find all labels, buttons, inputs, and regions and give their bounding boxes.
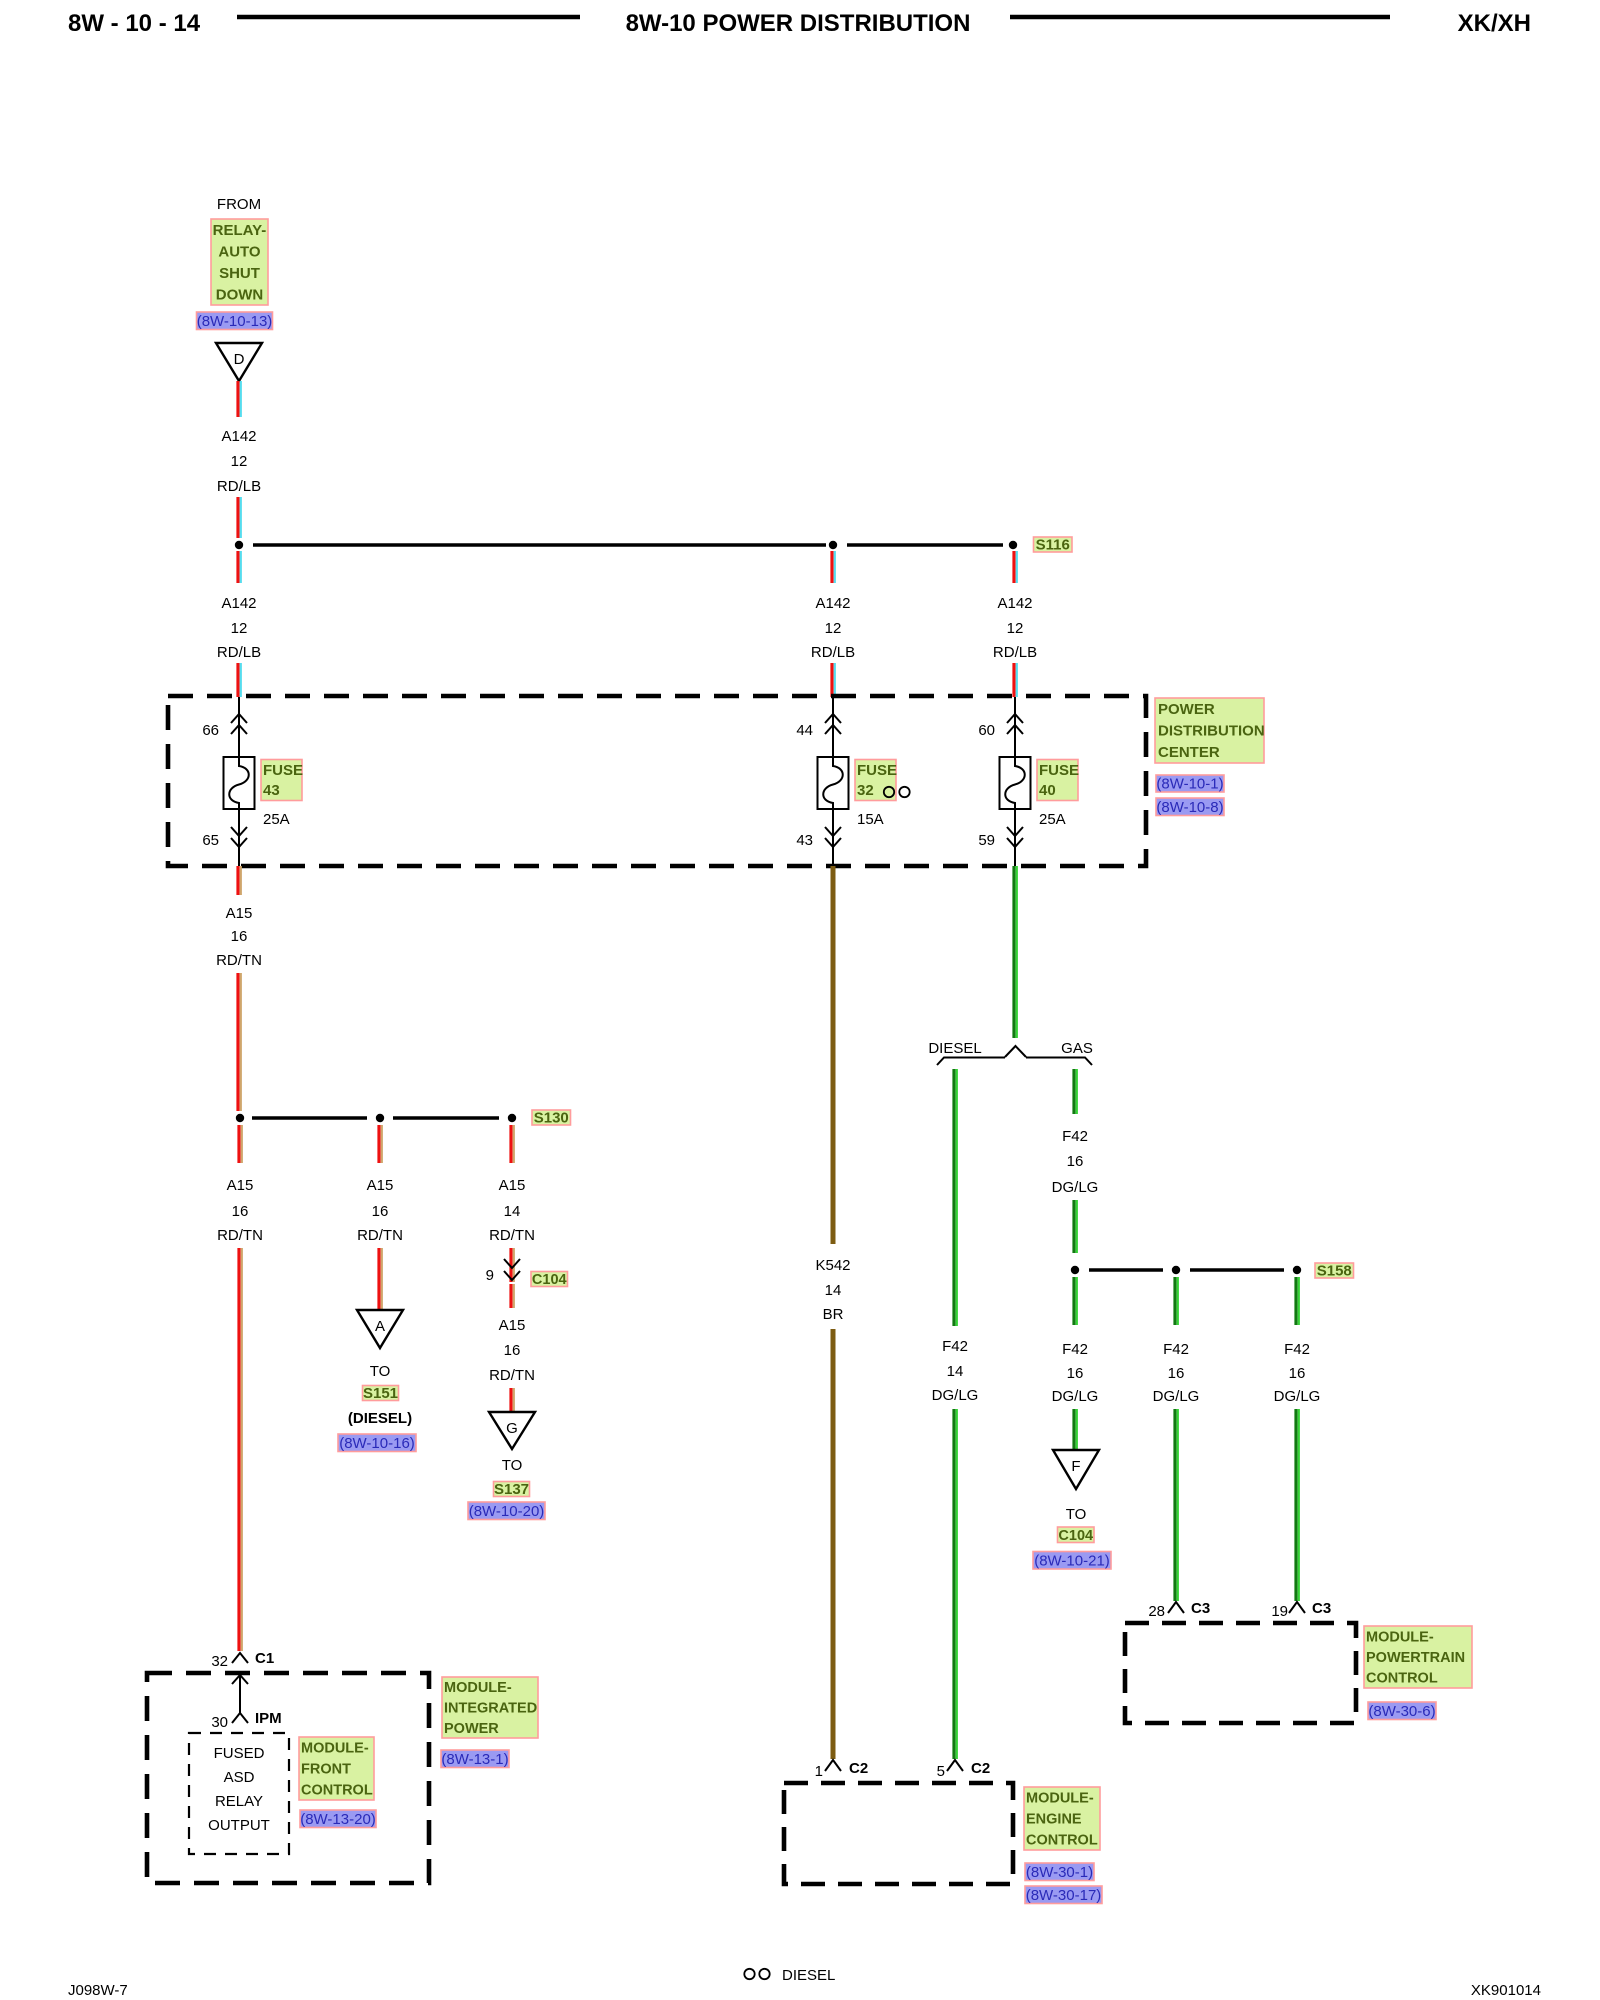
svg-text:FUSE: FUSE: [263, 762, 303, 779]
off-page connector D: [216, 343, 262, 381]
svg-text:16: 16: [1067, 1365, 1084, 1382]
svg-text:12: 12: [825, 620, 842, 637]
svg-text:16: 16: [1289, 1365, 1306, 1382]
svg-text:16: 16: [1067, 1153, 1084, 1170]
wire label A142 12 RD/LB at x=1015: [993, 595, 1037, 661]
svg-text:(8W-13-1): (8W-13-1): [441, 1751, 508, 1768]
pin 30 IPM chevron: [232, 1713, 248, 1723]
svg-text:F42: F42: [1062, 1341, 1088, 1358]
svg-text:14: 14: [947, 1363, 964, 1380]
svg-text:GAS: GAS: [1061, 1040, 1093, 1057]
svg-text:J098W-7: J098W-7: [68, 1982, 128, 1999]
svg-text:16: 16: [372, 1203, 389, 1220]
svg-text:16: 16: [1168, 1365, 1185, 1382]
svg-text:DG/LG: DG/LG: [1052, 1179, 1099, 1196]
page ref 8W-13-1: [441, 1750, 509, 1768]
svg-text:C104: C104: [1058, 1528, 1093, 1544]
svg-text:FUSED: FUSED: [214, 1745, 265, 1762]
wire label A15 16 RD/TN: [489, 1317, 535, 1384]
page ref 8W-10-16: [338, 1434, 416, 1452]
svg-text:12: 12: [231, 620, 248, 637]
svg-text:43: 43: [796, 832, 813, 849]
wire F42 to PCM pin 28: [1175, 1409, 1178, 1601]
svg-text:A142: A142: [221, 595, 256, 612]
wire label A142 12 RD/LB at x=239: [217, 595, 261, 661]
wire to F: [1074, 1409, 1077, 1449]
svg-text:15A: 15A: [857, 811, 884, 828]
svg-text:A: A: [375, 1318, 385, 1335]
fuse FUSE 40 feed line: [1014, 697, 1016, 757]
connector C104 chevrons: [504, 1259, 520, 1280]
wire A142 to splice S116: [238, 497, 241, 538]
svg-text:16: 16: [232, 1203, 249, 1220]
svg-text:44: 44: [796, 722, 813, 739]
splice S130 node left: [236, 1114, 244, 1122]
wire A142 12 RD/LB drop at x=1015: [1014, 551, 1017, 583]
svg-text:DIESEL: DIESEL: [782, 1967, 835, 1984]
svg-text:RD/TN: RD/TN: [489, 1227, 535, 1244]
svg-text:TO: TO: [502, 1457, 523, 1474]
fuse label FUSE 43: [261, 760, 303, 801]
svg-text:(8W-30-17): (8W-30-17): [1026, 1887, 1102, 1904]
svg-text:AUTO: AUTO: [218, 244, 261, 261]
svg-text:RD/LB: RD/LB: [217, 644, 261, 661]
wire label F42 16 DG/LG at x=1297: [1274, 1341, 1321, 1405]
svg-text:C2: C2: [849, 1760, 868, 1777]
wire A15 16 RD/TN below C104: [511, 1284, 514, 1308]
fuse FUSE 43 body: [224, 757, 255, 809]
svg-text:ASD: ASD: [224, 1769, 255, 1786]
svg-text:A15: A15: [227, 1177, 254, 1194]
wire K542 14 BR below fuse 32: [831, 866, 836, 1244]
svg-text:MODULE-: MODULE-: [1366, 1629, 1434, 1645]
wire label F42 14 DG/LG: [932, 1338, 979, 1404]
fuse FUSE 40 output line: [1014, 809, 1016, 866]
svg-text:RD/LB: RD/LB: [811, 644, 855, 661]
module-engine control box: [784, 1783, 1013, 1884]
svg-text:C2: C2: [971, 1760, 990, 1777]
splice S158 node middle: [1172, 1266, 1180, 1274]
svg-text:DG/LG: DG/LG: [1153, 1388, 1200, 1405]
connector C2 pin 5 chevron: [947, 1760, 963, 1771]
header rule right: [1010, 15, 1390, 20]
svg-text:D: D: [234, 351, 245, 368]
wire F42 to ECM C2 pin 5: [954, 1409, 957, 1759]
pin 65 connector chevrons: [231, 827, 247, 847]
svg-text:XK/XH: XK/XH: [1458, 10, 1531, 37]
svg-text:(8W-10-1): (8W-10-1): [1156, 775, 1223, 792]
wire F42 16 DG/LG below S158 at x=1297: [1296, 1277, 1299, 1325]
svg-text:30: 30: [211, 1714, 228, 1731]
svg-text:C3: C3: [1191, 1600, 1210, 1617]
svg-text:S130: S130: [534, 1110, 569, 1127]
svg-text:RD/LB: RD/LB: [993, 644, 1037, 661]
svg-text:S151: S151: [363, 1385, 398, 1402]
page ref 8W-10-1: [1156, 775, 1224, 792]
wire label A142 12 RD/LB: [217, 428, 261, 495]
svg-text:CONTROL: CONTROL: [1026, 1833, 1098, 1849]
pin 60 connector chevrons: [1007, 714, 1023, 734]
svg-text:TO: TO: [370, 1363, 391, 1380]
svg-text:DIESEL: DIESEL: [928, 1040, 981, 1057]
svg-text:RD/TN: RD/TN: [216, 952, 262, 969]
svg-text:A15: A15: [226, 905, 253, 922]
svg-text:CONTROL: CONTROL: [1366, 1671, 1438, 1687]
pin 44 connector chevrons: [825, 714, 841, 734]
svg-text:FRONT: FRONT: [301, 1762, 351, 1778]
svg-text:RD/TN: RD/TN: [217, 1227, 263, 1244]
off-page connector A: [357, 1310, 403, 1348]
svg-text:FROM: FROM: [217, 196, 261, 213]
wire label A15 16 RD/TN: [217, 1177, 263, 1244]
svg-text:MODULE-: MODULE-: [1026, 1791, 1094, 1807]
svg-text:25A: 25A: [263, 811, 290, 828]
svg-text:OUTPUT: OUTPUT: [208, 1817, 270, 1834]
fused ASD relay output inner box: [189, 1733, 289, 1854]
svg-text:RD/LB: RD/LB: [217, 478, 261, 495]
svg-text:CONTROL: CONTROL: [301, 1783, 373, 1799]
relay-auto-shut-down source label: [211, 219, 268, 305]
wire label A142 12 RD/LB at x=833: [811, 595, 855, 661]
wire splice bus segment 1: [253, 543, 826, 546]
wire F42 DG/LG below fuse 40: [1014, 866, 1017, 1038]
connector C1 pin 32 chevron: [232, 1653, 248, 1663]
svg-text:MODULE-: MODULE-: [444, 1680, 512, 1696]
svg-text:FUSE: FUSE: [1039, 762, 1079, 779]
diesel marker circles: [884, 787, 910, 797]
connector label C104: [1058, 1527, 1095, 1544]
svg-text:25A: 25A: [1039, 811, 1066, 828]
diesel/gas split bracket: [937, 1046, 1092, 1065]
svg-text:16: 16: [504, 1342, 521, 1359]
svg-text:8W-10 POWER DISTRIBUTION: 8W-10 POWER DISTRIBUTION: [626, 10, 971, 37]
svg-text:32: 32: [857, 782, 874, 799]
internal arrow from fused ASD relay output: [232, 1675, 248, 1713]
wire to G: [511, 1388, 514, 1411]
module-front control label: [299, 1737, 374, 1800]
svg-text:F42: F42: [1062, 1128, 1088, 1145]
wire A15 to splice S130: [238, 973, 241, 1111]
off-page connector F: [1053, 1450, 1099, 1489]
connector label C104: [531, 1272, 568, 1289]
svg-text:14: 14: [504, 1203, 521, 1220]
module-powertrain control label: [1364, 1626, 1472, 1688]
svg-text:(DIESEL): (DIESEL): [348, 1410, 412, 1427]
wire A15 below S130 at x=240: [239, 1125, 242, 1163]
splice label S130: [532, 1110, 571, 1127]
svg-text:65: 65: [202, 832, 219, 849]
wire K542 to ECM C2: [831, 1329, 836, 1759]
svg-text:(8W-10-8): (8W-10-8): [1156, 799, 1223, 816]
wire label F42 16 DG/LG at x=1176: [1153, 1341, 1200, 1405]
page ref 8W-10-13: [197, 312, 273, 330]
wire label A15 14 RD/TN: [489, 1177, 535, 1244]
splice S130 node middle: [376, 1114, 384, 1122]
wire splice bus segment 2: [847, 543, 1003, 546]
splice S130 node right: [508, 1114, 516, 1122]
svg-text:RELAY-: RELAY-: [213, 222, 267, 239]
wire label A15 16 RD/TN: [216, 905, 262, 969]
svg-text:POWER: POWER: [1158, 701, 1215, 718]
power distribution center box: [168, 696, 1146, 866]
splice S130 bus segment 2: [393, 1116, 499, 1119]
splice S130 bus segment 1: [252, 1116, 367, 1119]
wire A15 16 RD/TN below fuse 43: [238, 866, 241, 895]
fuse label FUSE 32: [855, 760, 897, 801]
splice S116 node middle: [829, 541, 837, 549]
fuse FUSE 32 body: [818, 757, 849, 809]
fuse FUSE 40 body: [1000, 757, 1031, 809]
svg-text:CENTER: CENTER: [1158, 744, 1220, 761]
wire A15 14 RD/TN to C104: [511, 1248, 514, 1282]
svg-text:IPM: IPM: [255, 1710, 282, 1727]
page ref 8W-10-21: [1033, 1552, 1111, 1570]
splice label S158: [1315, 1263, 1354, 1280]
wire F42 16 DG/LG below S158 at x=1075: [1074, 1277, 1077, 1325]
svg-text:F: F: [1071, 1458, 1080, 1475]
svg-text:SHUT: SHUT: [219, 265, 260, 282]
svg-text:DG/LG: DG/LG: [1274, 1388, 1321, 1405]
svg-text:F42: F42: [1284, 1341, 1310, 1358]
splice S116 node right: [1009, 541, 1017, 549]
wire F42 to splice S158: [1074, 1200, 1077, 1253]
page ref 8W-13-20: [300, 1810, 376, 1828]
svg-text:28: 28: [1148, 1603, 1165, 1620]
svg-text:F42: F42: [1163, 1341, 1189, 1358]
svg-text:MODULE-: MODULE-: [301, 1741, 369, 1757]
splice label S151: [363, 1385, 399, 1402]
module-integrated power box: [147, 1673, 429, 1883]
splice S158 bus segment 2: [1190, 1268, 1284, 1271]
svg-text:DOWN: DOWN: [216, 287, 264, 304]
svg-text:1: 1: [815, 1763, 823, 1780]
wire F42 14 DG/LG diesel branch: [954, 1069, 957, 1326]
svg-text:A142: A142: [815, 595, 850, 612]
wire F42 16 DG/LG gas branch: [1074, 1069, 1077, 1114]
wire A142 12 RD/LB drop at x=833: [832, 551, 835, 583]
wire A15 16 RD/TN to A: [379, 1248, 382, 1309]
module-powertrain control box: [1125, 1623, 1356, 1723]
wire A15 below S130 at x=512: [511, 1125, 514, 1163]
svg-text:K542: K542: [815, 1257, 850, 1274]
svg-text:POWER: POWER: [444, 1721, 499, 1737]
page ref 8W-10-20: [468, 1502, 545, 1520]
svg-text:RD/TN: RD/TN: [489, 1367, 535, 1384]
module-integrated power label: [442, 1677, 538, 1738]
page ref 8W-10-8: [1156, 798, 1224, 816]
pin 43 connector chevrons: [825, 827, 841, 847]
wire label K542 14 BR: [815, 1257, 850, 1323]
svg-text:A142: A142: [997, 595, 1032, 612]
svg-text:40: 40: [1039, 782, 1056, 799]
svg-text:INTEGRATED: INTEGRATED: [444, 1701, 537, 1717]
wire A142 12 RD/LB drop at x=239: [238, 551, 241, 583]
wire label A15 16 RD/TN: [357, 1177, 403, 1244]
svg-text:9: 9: [486, 1267, 494, 1284]
svg-text:A142: A142: [221, 428, 256, 445]
svg-text:12: 12: [1007, 620, 1024, 637]
connector C2 pin 1 chevron: [825, 1760, 841, 1771]
pin 66 connector chevrons: [231, 714, 247, 734]
svg-text:43: 43: [263, 782, 280, 799]
connector C3 pin 19 chevron: [1289, 1602, 1305, 1613]
svg-text:FUSE: FUSE: [857, 762, 897, 779]
svg-text:C104: C104: [532, 1272, 567, 1288]
module-engine control label: [1024, 1787, 1100, 1850]
svg-text:14: 14: [825, 1282, 842, 1299]
svg-text:12: 12: [231, 453, 248, 470]
svg-text:C3: C3: [1312, 1600, 1331, 1617]
svg-text:POWERTRAIN: POWERTRAIN: [1366, 1650, 1465, 1666]
splice S158 node right: [1293, 1266, 1301, 1274]
splice label S116: [1034, 537, 1073, 554]
page ref 8W-30-1: [1025, 1863, 1094, 1881]
svg-text:BR: BR: [823, 1306, 844, 1323]
svg-text:(8W-10-13): (8W-10-13): [197, 313, 273, 330]
fuse FUSE 32 output line: [832, 809, 834, 866]
fuse FUSE 32 feed line: [832, 697, 834, 757]
svg-text:(8W-30-1): (8W-30-1): [1026, 1864, 1093, 1881]
pin 59 connector chevrons: [1007, 827, 1023, 847]
svg-text:5: 5: [937, 1763, 945, 1780]
splice S116 node left: [235, 541, 243, 549]
wire A15 below S130 at x=380: [379, 1125, 382, 1163]
svg-text:A15: A15: [499, 1177, 526, 1194]
fuse label FUSE 40: [1037, 760, 1079, 801]
connector C3 pin 28 chevron: [1168, 1602, 1184, 1613]
power distribution center label: [1155, 698, 1265, 763]
fused ASD relay output text: [208, 1745, 270, 1834]
fuse FUSE 43 feed line: [238, 697, 240, 757]
off-page connector G: [489, 1412, 535, 1449]
svg-text:G: G: [506, 1420, 518, 1437]
svg-text:DISTRIBUTION: DISTRIBUTION: [1158, 723, 1265, 740]
splice S158 node left: [1071, 1266, 1079, 1274]
svg-text:S116: S116: [1036, 537, 1070, 554]
svg-text:19: 19: [1271, 1603, 1288, 1620]
page ref 8W-30-6: [1368, 1702, 1436, 1720]
splice S158 bus segment 1: [1089, 1268, 1163, 1271]
svg-text:TO: TO: [1066, 1506, 1087, 1523]
header rule left: [237, 15, 580, 20]
svg-text:C1: C1: [255, 1650, 274, 1667]
splice label S137: [494, 1481, 530, 1498]
svg-text:A15: A15: [367, 1177, 394, 1194]
wire A142 into PDC at x=833: [832, 663, 835, 697]
svg-text:RD/TN: RD/TN: [357, 1227, 403, 1244]
svg-text:S158: S158: [1317, 1263, 1352, 1280]
svg-text:8W - 10 - 14: 8W - 10 - 14: [68, 10, 201, 37]
svg-text:32: 32: [211, 1653, 228, 1670]
wire A15 16 RD/TN to IPM C1: [239, 1248, 242, 1651]
wire A142 into PDC at x=239: [238, 663, 241, 697]
svg-text:DG/LG: DG/LG: [932, 1387, 979, 1404]
page ref 8W-30-17: [1025, 1886, 1102, 1904]
svg-text:(8W-10-21): (8W-10-21): [1034, 1552, 1110, 1569]
svg-text:ENGINE: ENGINE: [1026, 1812, 1082, 1828]
wire label F42 16 DG/LG at x=1075: [1052, 1341, 1099, 1405]
svg-text:60: 60: [978, 722, 995, 739]
svg-text:(8W-10-20): (8W-10-20): [469, 1503, 545, 1520]
legend diesel circles: [744, 1969, 769, 1979]
svg-text:(8W-30-6): (8W-30-6): [1368, 1703, 1435, 1720]
svg-text:16: 16: [231, 928, 248, 945]
svg-text:(8W-10-16): (8W-10-16): [339, 1435, 415, 1452]
svg-text:F42: F42: [942, 1338, 968, 1355]
wire F42 16 DG/LG below S158 at x=1176: [1175, 1277, 1178, 1325]
wire F42 to PCM pin 19: [1296, 1409, 1299, 1601]
svg-text:S137: S137: [494, 1481, 529, 1498]
svg-text:A15: A15: [499, 1317, 526, 1334]
wire label F42 16 DG/LG: [1052, 1128, 1099, 1196]
svg-text:66: 66: [202, 722, 219, 739]
svg-text:RELAY: RELAY: [215, 1793, 263, 1810]
svg-text:XK901014: XK901014: [1471, 1982, 1541, 1999]
fuse FUSE 43 output line: [238, 809, 240, 866]
svg-text:59: 59: [978, 832, 995, 849]
svg-text:(8W-13-20): (8W-13-20): [300, 1811, 376, 1828]
svg-text:DG/LG: DG/LG: [1052, 1388, 1099, 1405]
wire A142 into PDC at x=1015: [1014, 663, 1017, 697]
wire A142 12 RD/LB from D: [238, 381, 241, 417]
